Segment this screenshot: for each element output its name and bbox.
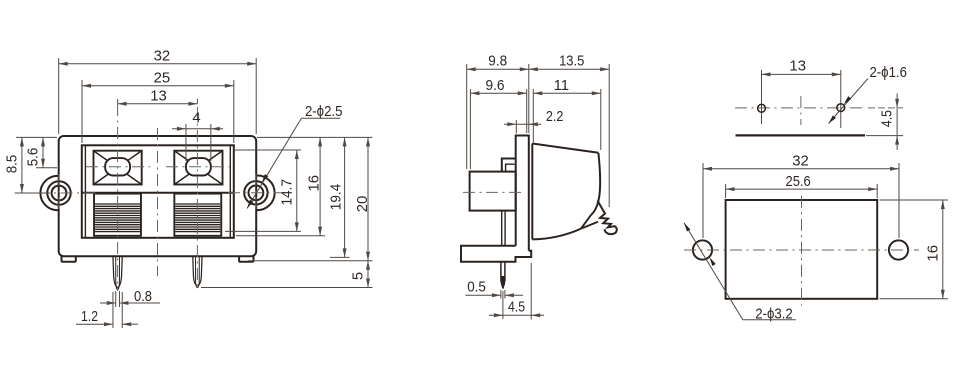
label 2-phi3.2 with leader: [684, 223, 796, 322]
front view left mounting foot: [62, 256, 76, 262]
side view cap and face outline: [516, 136, 529, 251]
svg-text:13: 13: [150, 89, 167, 105]
dimension 16 (top view): [880, 200, 949, 299]
side view lever bottom arc: [532, 229, 581, 240]
dimension 14.7: [225, 150, 301, 231]
front view left terminal pin: [113, 256, 122, 290]
side view block centerline: [463, 191, 522, 193]
svg-text:16: 16: [925, 245, 941, 262]
svg-text:11: 11: [554, 78, 569, 94]
svg-text:5.6: 5.6: [26, 148, 42, 167]
top view left ear circle 3.2mm: [693, 240, 712, 259]
dimension 9.8: [467, 54, 529, 169]
pins view vertical centerline: [800, 96, 802, 125]
dimension 13 (pin spacing): [762, 59, 841, 77]
dimension 19.4: [329, 137, 350, 257]
dimension 1.2 (pin width): [76, 292, 138, 328]
dimension 13.5: [529, 54, 609, 207]
front view right ear centerline vertical: [255, 174, 257, 213]
dimension 2.2: [504, 109, 563, 134]
svg-text:0.5: 0.5: [467, 280, 486, 296]
front view left lever with serrations: [94, 194, 141, 236]
top view horizontal centerline: [684, 249, 919, 251]
front view right button centerline horizontal: [166, 166, 231, 168]
svg-text:8.5: 8.5: [4, 155, 20, 174]
side view spring serration zigzag: [597, 201, 616, 235]
front view central centerline: [157, 128, 159, 276]
side view upper step B: [506, 164, 515, 171]
side view terminal block: [470, 172, 516, 211]
dimension 5 (pin standoff): [201, 261, 373, 288]
dimension 5.6 (button center offset): [26, 137, 58, 167]
side view upper step A: [502, 159, 516, 172]
svg-text:32: 32: [792, 154, 809, 170]
dimension 11: [533, 78, 601, 150]
side view face-right vertical: [515, 172, 517, 246]
svg-text:13: 13: [789, 59, 806, 75]
side view lever wedge left edge: [531, 144, 533, 240]
front view housing right inner wall: [229, 145, 231, 238]
dimension 4.5 (side): [489, 263, 544, 320]
front view right ear boss circle: [244, 181, 267, 204]
pins view board line: [736, 134, 866, 136]
svg-text:2.2: 2.2: [546, 109, 564, 125]
svg-text:2-ϕ2.5: 2-ϕ2.5: [305, 104, 343, 120]
label 2-phi2.5 with leader: [247, 104, 342, 209]
top view right ear circle 3.2mm: [889, 240, 908, 259]
front view left ear centerline vertical: [58, 174, 60, 213]
svg-text:32: 32: [154, 49, 171, 65]
dimension 0.8 (pin tip width): [100, 289, 160, 307]
front view left ear hole 2.5mm: [52, 186, 67, 201]
svg-text:16: 16: [306, 175, 322, 192]
dimension 16 (front): [236, 137, 325, 235]
front view left button centerline vertical: [117, 104, 119, 291]
svg-text:25.6: 25.6: [786, 174, 811, 190]
front view right push button (X pattern + oval): [174, 151, 222, 185]
svg-text:9.8: 9.8: [488, 54, 507, 70]
front view body outline: [59, 136, 257, 256]
side view pin lower section: [501, 262, 505, 289]
svg-text:4.5: 4.5: [508, 300, 525, 316]
dimension 32 (top view): [703, 154, 899, 238]
dimension 25 (housing width): [82, 71, 234, 143]
svg-text:19.4: 19.4: [329, 184, 345, 211]
svg-text:9.6: 9.6: [486, 78, 505, 94]
pins view horizontal centerline: [735, 107, 866, 109]
side view bottom bracket: [461, 246, 531, 262]
front view left ear boss circle: [47, 181, 70, 204]
top view body rectangle: [726, 200, 878, 299]
pins view right pin circle: [837, 104, 845, 112]
front view left ear tab: [40, 176, 59, 210]
side view lever wedge top edge: [532, 144, 598, 153]
dimension 25.6: [726, 174, 878, 198]
dimension 8.5 (ear hole offset): [4, 137, 57, 193]
svg-text:0.8: 0.8: [134, 289, 152, 305]
front view right mounting foot: [239, 256, 253, 262]
side view pin middle section: [502, 211, 505, 246]
front view right ear centerline horizontal: [228, 192, 292, 194]
front view left button centerline horizontal: [86, 166, 150, 168]
front view right ear hole 2.5mm: [249, 185, 264, 200]
svg-text:14.7: 14.7: [280, 179, 296, 206]
svg-text:20: 20: [355, 196, 371, 213]
svg-text:25: 25: [154, 71, 171, 87]
dimension 13 (button spacing): [118, 89, 198, 106]
svg-text:13.5: 13.5: [559, 54, 584, 70]
svg-text:1.2: 1.2: [81, 309, 98, 325]
front view housing left inner wall: [84, 145, 86, 238]
front view right terminal pin: [193, 256, 202, 288]
dimension 4.5 (pin to board): [866, 94, 903, 151]
svg-text:5: 5: [350, 272, 366, 280]
side view lever beak fold: [581, 215, 598, 229]
front view housing separator line: [82, 192, 234, 194]
dimension 0.5 (pin thickness): [466, 280, 524, 299]
svg-text:4.5: 4.5: [880, 110, 896, 127]
front view left ear centerline horizontal: [15, 192, 97, 194]
front view right button centerline vertical: [196, 107, 198, 291]
front view right lever with serrations: [174, 194, 221, 236]
dimension 20: [248, 137, 373, 260]
svg-text:4: 4: [192, 111, 200, 127]
dimension 32 (front width): [59, 49, 257, 135]
dimension 4 (oval width): [172, 111, 223, 162]
dimension 9.6: [470, 78, 526, 169]
front view left push button (X pattern + oval): [94, 151, 142, 185]
pins view right pin centerline: [840, 70, 842, 128]
label 2-phi1.6 with leader: [829, 65, 907, 124]
front view right ear tab: [256, 176, 275, 211]
pins view left pin centerline: [761, 70, 763, 124]
pins view left pin circle: [758, 104, 766, 112]
top view vertical centerline: [801, 196, 803, 306]
side view lever right edge curving: [591, 153, 600, 215]
svg-text:2-ϕ1.6: 2-ϕ1.6: [869, 65, 907, 81]
front view inner housing: [82, 145, 234, 238]
